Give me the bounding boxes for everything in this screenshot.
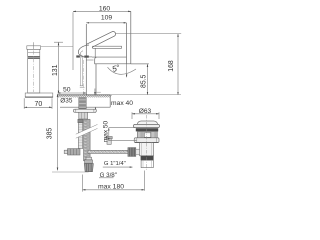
counter right edge bbox=[109, 95, 111, 108]
shank nut bbox=[79, 112, 88, 119]
faucet F: lever bbox=[86, 32, 115, 48]
faucet F: axis dash-dot bbox=[83, 60, 85, 120]
mounting flange bbox=[73, 109, 96, 112]
popup rod bbox=[78, 123, 82, 149]
faucet F: body right edges (double) bbox=[126, 23, 128, 64]
faucet F: spout nose curve bbox=[78, 45, 89, 56]
svg-text:131: 131 bbox=[52, 64, 59, 76]
svg-text:Ø35: Ø35 bbox=[60, 98, 73, 105]
hose collar bbox=[86, 157, 92, 160]
svg-text:168: 168 bbox=[168, 60, 175, 72]
faucet S: top centerline tick bbox=[33, 42, 35, 49]
faucet F: body bottom line bbox=[95, 57, 149, 64]
G3/8 nut bbox=[84, 164, 93, 172]
left outlet stub bbox=[136, 149, 140, 155]
faucet F: inner bar bbox=[93, 46, 122, 48]
popup rod collar bbox=[78, 119, 83, 122]
tail section bbox=[140, 143, 154, 156]
dim max180 bbox=[83, 171, 145, 192]
faucet S: joint dark band bbox=[28, 56, 40, 58]
svg-text:max 40: max 40 bbox=[111, 100, 133, 107]
knurl ring with slot bbox=[137, 132, 157, 138]
dim 85.5 bbox=[131, 63, 149, 65]
svg-text:85.5: 85.5 bbox=[141, 74, 148, 88]
svg-text:max 50: max 50 bbox=[102, 120, 109, 142]
svg-text:G 1"1/4": G 1"1/4" bbox=[104, 161, 126, 167]
dim 70 bbox=[24, 98, 52, 109]
tailpipe bbox=[141, 160, 153, 167]
thread band bbox=[141, 156, 154, 160]
svg-text:109: 109 bbox=[101, 15, 113, 22]
faucet S: base bottom dark edge bbox=[25, 96, 53, 98]
faucet F: aerator dark band bbox=[77, 56, 93, 58]
svg-text:385: 385 bbox=[46, 128, 53, 140]
faucet S: body bbox=[28, 49, 40, 93]
break symbol bbox=[76, 124, 98, 138]
faucet F: lower column bbox=[95, 64, 97, 95]
horizontal rod to drain bbox=[88, 150, 128, 153]
dim 109 bbox=[86, 22, 126, 24]
svg-text:Ø63: Ø63 bbox=[139, 108, 152, 115]
counter hatch band bbox=[58, 95, 111, 98]
svg-text:max 180: max 180 bbox=[98, 184, 124, 191]
dim max50 bbox=[109, 128, 137, 141]
small piece on rod bbox=[107, 139, 111, 145]
projection line side cap to front bbox=[41, 45, 73, 47]
faucet S: body centerline dashed bbox=[33, 51, 35, 93]
max40 outside arrows bbox=[94, 89, 96, 95]
left hose fitting bbox=[68, 149, 81, 155]
rod right nut bbox=[128, 148, 136, 157]
upper body dark band bbox=[136, 128, 158, 131]
drain centerline bbox=[146, 115, 148, 171]
lever tip tie line bbox=[116, 33, 181, 35]
dim 168 bbox=[177, 34, 179, 95]
flange bbox=[134, 124, 160, 127]
svg-text:160: 160 bbox=[99, 6, 111, 13]
counter top level extension to right bbox=[110, 94, 181, 96]
plug dome bbox=[137, 121, 157, 124]
svg-text:G 3/8": G 3/8" bbox=[100, 172, 117, 179]
braided hose bbox=[84, 120, 91, 161]
dim 160 bbox=[73, 11, 131, 70]
385 bottom ref line bbox=[52, 171, 89, 173]
dim Ø63 bbox=[131, 112, 133, 119]
svg-text:70: 70 bbox=[35, 101, 43, 108]
shank threads bbox=[79, 98, 86, 109]
dim 131 bbox=[54, 42, 63, 93]
counter bottom line bbox=[60, 106, 110, 108]
faucet S: base plate bbox=[25, 93, 53, 97]
dim 385 bbox=[57, 94, 59, 170]
dim 50 bbox=[58, 92, 87, 94]
faucet S: lever cap bbox=[27, 46, 41, 50]
wide nut bbox=[134, 138, 159, 143]
faucet F: body top line bbox=[92, 56, 126, 58]
faucet F: body left edge bbox=[85, 24, 87, 95]
faucet F: aerator under-line bbox=[87, 59, 94, 61]
svg-text:50: 50 bbox=[63, 87, 71, 94]
faucet F: pop-up rod tube bbox=[79, 58, 81, 86]
